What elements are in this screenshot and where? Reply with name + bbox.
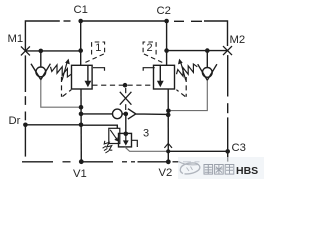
node C1 [78,19,83,24]
flow arrow in valve 3 [123,134,129,146]
node valve 1 top [78,48,83,53]
svg-text:C1: C1 [74,4,88,16]
spring of valve 1 [51,65,72,77]
spring of valve 3 [104,141,112,150]
plugged port M1 (X symbol) [21,46,30,55]
node check valve 2 drain junction [166,109,171,114]
node Dr [23,123,28,128]
flow arrow in valve 1 [85,66,92,87]
node Dr line left main [79,123,84,128]
node drain junction [79,105,84,110]
svg-text:V1: V1 [73,168,87,180]
wire valve 1 to V1 [80,89,82,162]
pilot dashed line valve 2 spring side [176,77,186,97]
adjustment arrow of valve 1 [62,59,70,81]
counterbalance valve 2 body [154,65,175,89]
svg-text:1: 1 [95,42,101,54]
node C3 junction [225,149,230,154]
pilot dashed line between valves [92,84,153,86]
node V1 [79,159,84,164]
wire valve 3 outlet [125,147,168,151]
pilot channel stub valve 1 [93,68,105,71]
check valve CV2 [198,51,217,81]
wire Dr line [25,125,117,129]
item 1 dashed enclosure [85,42,105,63]
adjustment arrow of valve 2 [178,59,186,81]
wire check valve 1 drain [41,80,81,108]
wire valve 2 to V2 [167,89,169,162]
wire top line C1 to C2 [81,20,167,22]
watermark text [204,165,234,175]
shuttle ball [113,109,123,119]
pilot dashed line valve 1 spring side [62,77,72,97]
flow arrow in valve 2 [157,66,164,87]
svg-text:M2: M2 [230,34,246,46]
pilot channel stub valve 2 [143,68,155,71]
wire C3 line [168,150,228,152]
node pilot junction [123,83,128,88]
node shuttle line right [166,113,171,118]
svg-text:3: 3 [143,128,149,140]
node valve 3 tap [124,112,129,117]
wire Dr down to bottom [24,125,26,157]
wire M1 X to main line [25,50,81,52]
counterbalance valve 1 body [72,65,93,89]
wire C2 down to valve 2 [166,21,168,65]
node V2 [166,159,171,164]
wire valve 3 riser [125,114,127,133]
bottom dashed boundary [22,161,179,163]
svg-text:2: 2 [147,42,153,54]
wire valve 2 top line to M2 [167,50,228,52]
hatch marks valve 3 [103,146,109,153]
flow direction chevron [164,143,172,148]
shuttle seat [122,109,168,119]
relief valve 3 body [119,133,132,147]
plugged port M2 (X symbol) [223,46,232,55]
svg-text:C3: C3 [232,142,246,154]
pilot dashed drop to orifice [125,88,127,110]
wire top line M1 corner to C1 [25,21,70,51]
node valve 3 top [124,132,129,137]
svg-text:C2: C2 [157,5,171,17]
bottom boundary grey dashes [183,161,200,163]
item 2 dashed enclosure [143,42,163,63]
node C2 [164,19,169,24]
svg-text:HBS: HBS [236,165,258,177]
svg-text:V2: V2 [159,167,173,179]
svg-text:M1: M1 [8,33,24,45]
watermark logo [179,162,200,174]
wire C1 down to valve 1 [80,21,82,65]
spring of valve 2 [177,64,198,76]
node check valve 1 tap [39,49,44,54]
valve 3 side loop [132,140,138,147]
node V2 line tap [166,149,170,153]
wire top dashed C2 to M2 corner [174,21,228,46]
relief valve 3 pilot box [109,128,120,143]
node shuttle line left [79,112,84,117]
relief valve 3 pilot arrow [110,130,118,142]
wire M2 vertical below X [227,55,229,162]
shuttle line [81,113,113,115]
node check valve 2 tap [205,48,210,53]
svg-text:Dr: Dr [9,115,21,127]
wire M1 vertical below X (solid then dashed to Dr) [24,55,26,120]
wire check valve 2 drain [168,80,207,110]
node valve 2 top [164,48,169,53]
orifice X symbol [120,92,132,105]
watermark background band [178,157,264,179]
check valve CV1 [31,51,50,80]
